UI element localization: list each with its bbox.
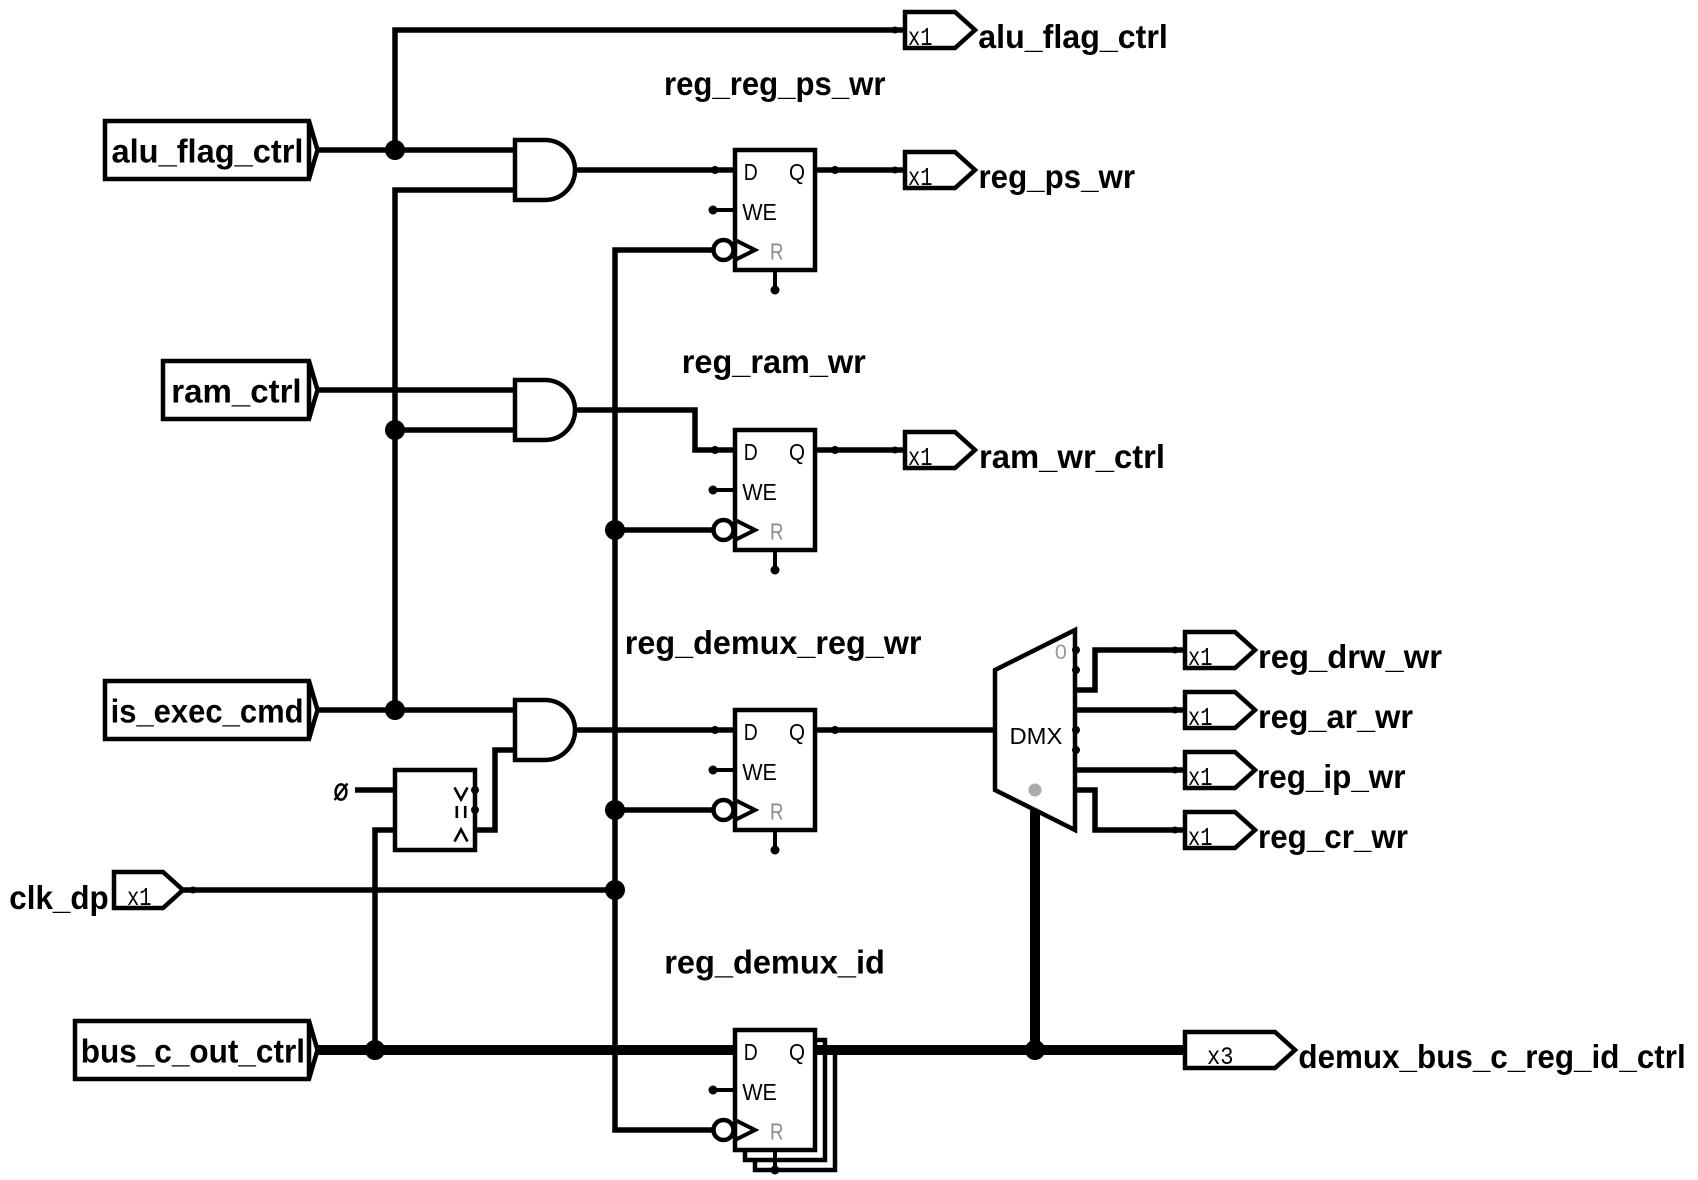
svg-text:D: D	[744, 159, 758, 185]
svg-text:WE: WE	[742, 759, 777, 785]
svg-text:x1: x1	[908, 163, 933, 193]
svg-text:bus_c_out_ctrl: bus_c_out_ctrl	[81, 1033, 305, 1070]
svg-text:demux_bus_c_reg_id_ctrl: demux_bus_c_reg_id_ctrl	[1298, 1038, 1685, 1075]
svg-text:Q: Q	[789, 1039, 805, 1065]
svg-text:0: 0	[1055, 640, 1067, 664]
svg-text:x1: x1	[1188, 643, 1213, 673]
svg-text:x1: x1	[1188, 763, 1213, 793]
svg-text:Q: Q	[789, 159, 805, 185]
svg-text:R: R	[770, 519, 784, 545]
svg-text:DMX: DMX	[1010, 723, 1063, 749]
svg-text:reg_ar_wr: reg_ar_wr	[1258, 698, 1413, 735]
svg-text:ram_ctrl: ram_ctrl	[171, 373, 301, 410]
svg-text:reg_ps_wr: reg_ps_wr	[979, 158, 1136, 195]
svg-text:x3: x3	[1207, 1043, 1234, 1072]
svg-text:x1: x1	[1188, 703, 1213, 733]
svg-text:R: R	[770, 799, 784, 825]
svg-text:x1: x1	[127, 883, 152, 913]
svg-text:D: D	[744, 719, 758, 745]
svg-text:x1: x1	[1188, 823, 1213, 853]
svg-text:alu_flag_ctrl: alu_flag_ctrl	[112, 133, 304, 170]
svg-text:R: R	[770, 1119, 784, 1145]
svg-text:reg_reg_ps_wr: reg_reg_ps_wr	[664, 65, 886, 102]
svg-text:Q: Q	[789, 719, 805, 745]
svg-text:reg_ip_wr: reg_ip_wr	[1257, 758, 1406, 795]
svg-text:clk_dp: clk_dp	[9, 879, 108, 916]
svg-text:reg_demux_reg_wr: reg_demux_reg_wr	[625, 624, 922, 661]
svg-text:ram_wr_ctrl: ram_wr_ctrl	[979, 438, 1165, 475]
svg-text:D: D	[744, 1039, 758, 1065]
svg-text:alu_flag_ctrl: alu_flag_ctrl	[978, 18, 1168, 55]
svg-text:WE: WE	[742, 1079, 777, 1105]
svg-text:reg_ram_wr: reg_ram_wr	[682, 343, 866, 380]
svg-text:x1: x1	[908, 23, 933, 53]
svg-text:reg_cr_wr: reg_cr_wr	[1258, 818, 1408, 855]
svg-text:reg_demux_id: reg_demux_id	[664, 944, 885, 981]
svg-text:x1: x1	[908, 443, 933, 473]
svg-text:WE: WE	[742, 479, 777, 505]
svg-text:R: R	[770, 239, 784, 265]
svg-text:reg_drw_wr: reg_drw_wr	[1258, 638, 1442, 675]
svg-text:D: D	[744, 439, 758, 465]
svg-text:is_exec_cmd: is_exec_cmd	[111, 693, 304, 730]
svg-text:Q: Q	[789, 439, 805, 465]
svg-text:WE: WE	[742, 199, 777, 225]
